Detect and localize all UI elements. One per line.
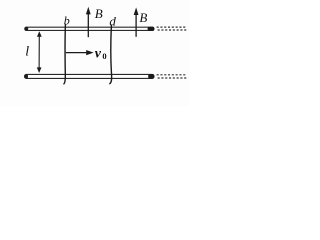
bottom rail dashed continuation — [157, 75, 187, 78]
B arrow 1 — [86, 7, 91, 37]
velocity arrow v0 — [66, 50, 94, 55]
dimension arrow l (double-headed) — [37, 31, 42, 73]
top rail — [24, 27, 154, 31]
bottom rail — [24, 74, 154, 79]
svg-text:B: B — [95, 6, 103, 21]
svg-text:l: l — [25, 45, 29, 60]
B arrow 2 — [134, 7, 139, 36]
svg-text:b: b — [64, 14, 70, 28]
svg-text:0: 0 — [102, 51, 106, 61]
svg-text:B: B — [139, 10, 147, 25]
rod d (conducting bar) — [110, 25, 112, 83]
svg-text:d: d — [109, 14, 116, 29]
top rail dashed continuation — [157, 27, 187, 30]
svg-text:v: v — [95, 46, 102, 61]
rod b (conducting bar) — [64, 24, 66, 84]
